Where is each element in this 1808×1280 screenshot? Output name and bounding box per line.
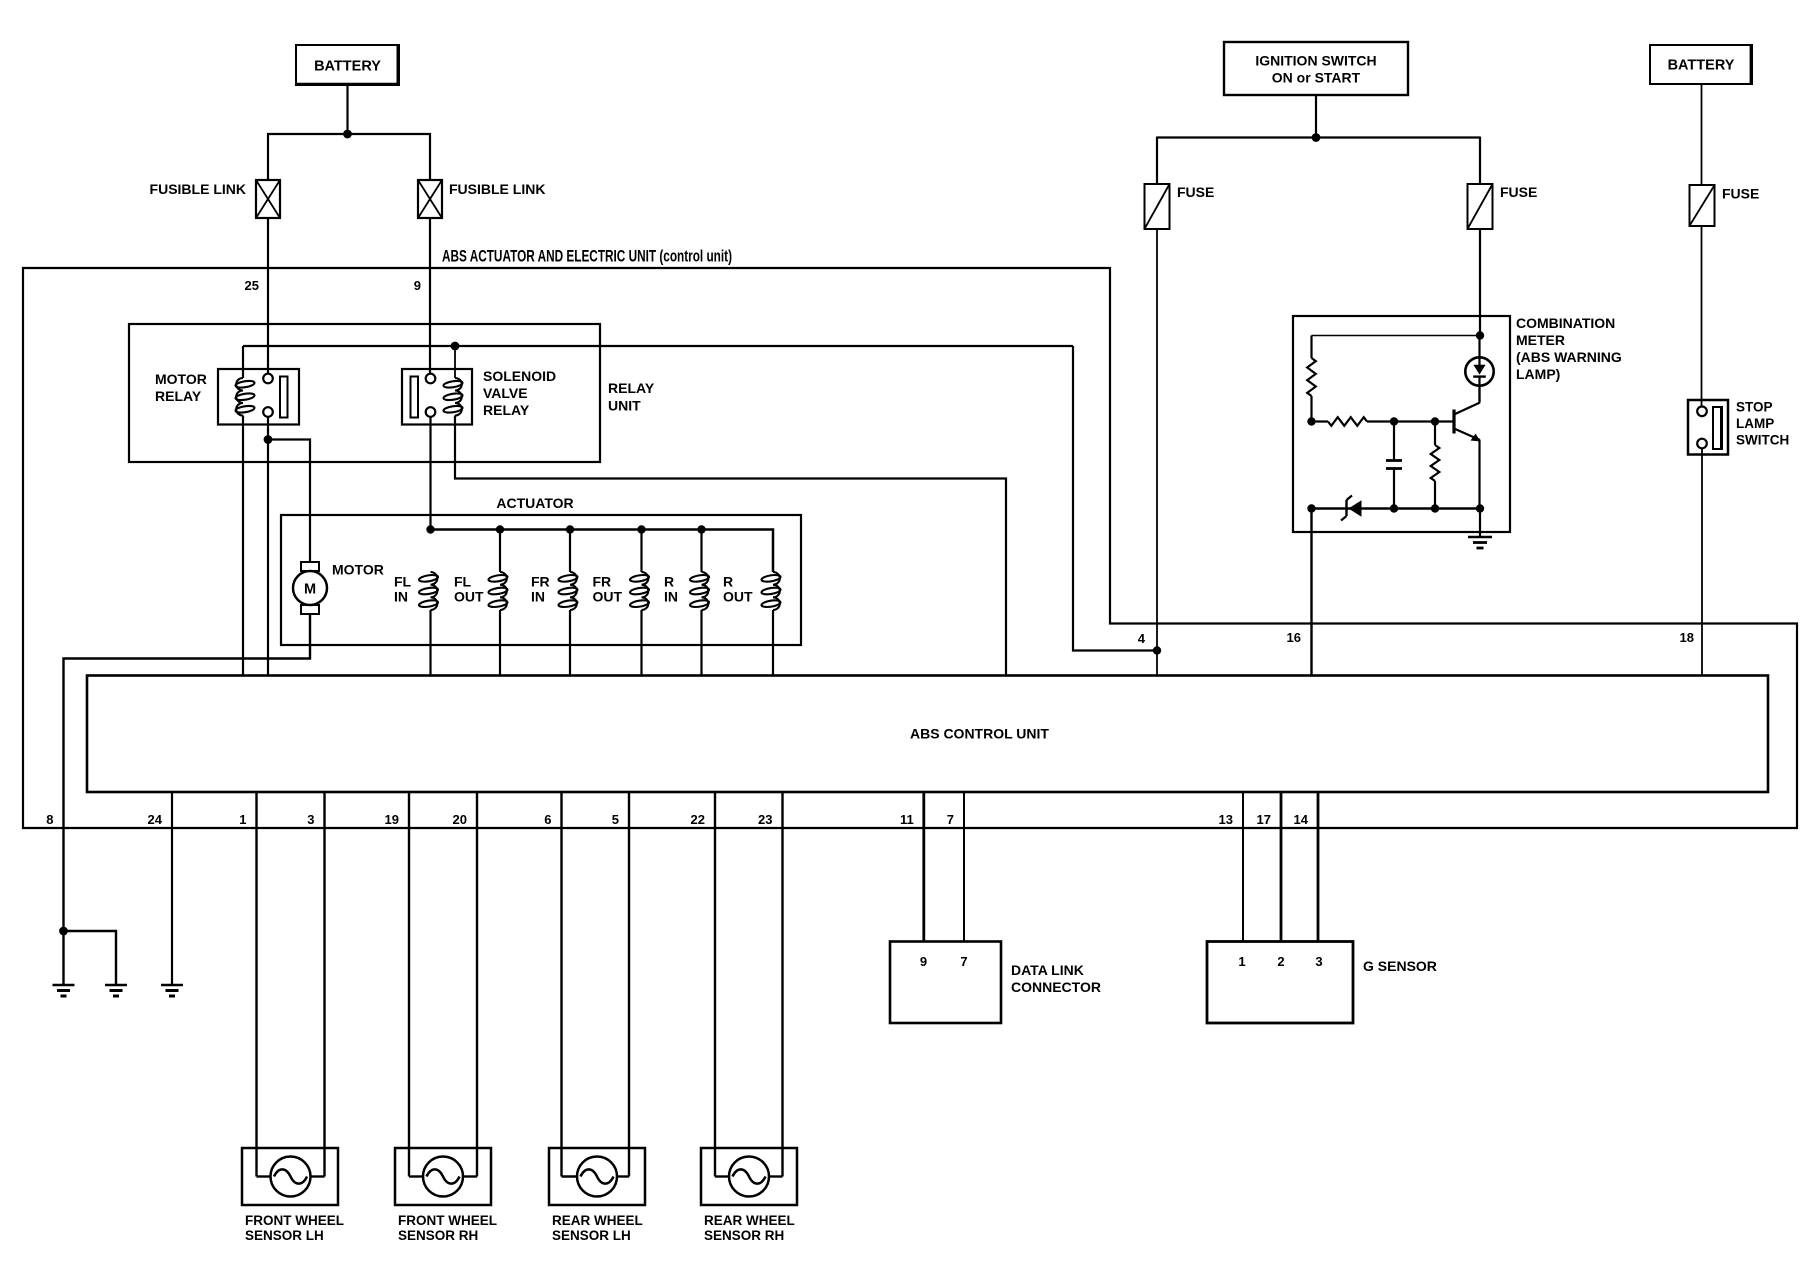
fusible link FL2 — [418, 180, 442, 218]
wire to fusible link FL2 — [429, 133, 431, 180]
node rail cap — [1390, 504, 1398, 512]
svg-text:ABS ACTUATOR AND ELECTRIC UNIT: ABS ACTUATOR AND ELECTRIC UNIT (control … — [442, 248, 732, 266]
actuator solenoid coil FR OUT — [642, 572, 649, 610]
ABS actuator and electric unit box — [23, 268, 1797, 828]
battery B1 box — [296, 45, 399, 85]
wire R3 top lead — [1434, 422, 1436, 446]
svg-text:FL: FL — [394, 574, 412, 590]
svg-text:9: 9 — [920, 954, 927, 969]
ground meter — [1468, 536, 1492, 538]
svg-text:MOTOR: MOTOR — [332, 562, 384, 578]
svg-text:SENSOR RH: SENSOR RH — [398, 1228, 478, 1243]
wire coil R OUT to control unit — [772, 610, 774, 676]
wire ignition split bar — [1157, 136, 1480, 138]
actuator solenoid coil R IN — [702, 572, 709, 610]
wire pin 17 to G sensor — [1280, 792, 1283, 942]
node bus FL IN — [426, 525, 434, 533]
node battery B1 split — [343, 130, 352, 139]
svg-text:19: 19 — [385, 812, 399, 827]
wire pin 11 to DLC — [922, 792, 925, 942]
wire into solenoid relay coil — [454, 346, 456, 378]
wire coil FR OUT to control unit — [640, 610, 642, 676]
svg-text:23: 23 — [758, 812, 772, 827]
svg-text:7: 7 — [947, 812, 954, 827]
svg-text:LAMP): LAMP) — [1516, 366, 1560, 382]
fuse F3 — [1690, 185, 1715, 226]
solenoid relay pin top — [426, 374, 436, 384]
node solenoid coil tap — [451, 342, 460, 351]
wire R3 bottom lead — [1434, 481, 1436, 509]
svg-text:LAMP: LAMP — [1736, 416, 1774, 431]
wire meter top rail — [1312, 335, 1481, 337]
actuator solenoid bus — [431, 530, 774, 573]
wire relay bus corner to pin4 jog — [1073, 346, 1158, 651]
svg-text:25: 25 — [245, 278, 259, 293]
wire pin 24 to ground — [171, 792, 173, 984]
svg-text:FUSIBLE LINK: FUSIBLE LINK — [449, 181, 545, 197]
svg-text:SENSOR LH: SENSOR LH — [552, 1228, 631, 1243]
svg-text:5: 5 — [612, 812, 619, 827]
stop lamp switch pin top — [1697, 407, 1707, 417]
svg-text:FRONT WHEEL: FRONT WHEEL — [398, 1213, 497, 1228]
svg-text:ABS CONTROL UNIT: ABS CONTROL UNIT — [910, 726, 1049, 742]
wire emitter down — [1478, 440, 1480, 509]
zener diode ZD1 — [1345, 500, 1347, 516]
resistor R1 — [1307, 358, 1316, 396]
motor relay pin top — [263, 374, 273, 384]
combination meter box — [1293, 316, 1510, 532]
node meter supply — [1476, 331, 1484, 339]
wire into motor relay coil — [242, 346, 244, 378]
motor M1 brush top — [301, 562, 319, 571]
wire fuse F1 to pin 4 — [1156, 229, 1158, 676]
node ignition split — [1312, 133, 1321, 142]
svg-text:16: 16 — [1287, 630, 1301, 645]
wire motor relay pin down — [267, 417, 269, 440]
svg-text:1: 1 — [239, 812, 246, 827]
wire ground main — [62, 931, 64, 984]
stop lamp switch bar — [1713, 407, 1722, 449]
svg-text:IGNITION SWITCH: IGNITION SWITCH — [1255, 53, 1376, 69]
wire meter left drop — [1310, 336, 1312, 359]
solenoid relay pin bottom — [426, 407, 436, 417]
ground G2 — [105, 984, 127, 986]
LED D1 lamp — [1465, 357, 1493, 385]
svg-text:RELAY: RELAY — [483, 402, 530, 418]
svg-text:RELAY: RELAY — [155, 388, 202, 404]
wire collector to LED — [1478, 385, 1480, 403]
svg-text:14: 14 — [1294, 812, 1309, 827]
motor relay contact bar — [280, 377, 288, 418]
svg-text:8: 8 — [46, 812, 53, 827]
svg-text:SENSOR LH: SENSOR LH — [245, 1228, 324, 1243]
svg-text:VALVE: VALVE — [483, 385, 528, 401]
wire meter to pin 16 — [1310, 509, 1312, 676]
wire to fuse F2 — [1479, 137, 1481, 185]
svg-text:11: 11 — [900, 812, 914, 827]
svg-text:18: 18 — [1680, 630, 1694, 645]
svg-text:OUT: OUT — [454, 589, 484, 605]
node rail left — [1307, 504, 1315, 512]
svg-text:FUSE: FUSE — [1177, 184, 1214, 200]
node base rail cap — [1390, 417, 1398, 425]
wire solenoid coil to node — [455, 416, 1006, 676]
G sensor box — [1207, 942, 1353, 1024]
ground G3 — [161, 984, 183, 986]
fusible link FL1 — [256, 180, 280, 218]
wire coil R IN to control unit — [700, 610, 702, 676]
wire ignition stem — [1315, 95, 1317, 138]
svg-text:ACTUATOR: ACTUATOR — [496, 495, 573, 511]
node ground split — [59, 927, 68, 936]
wire fuse F3 to stop lamp switch — [1701, 226, 1703, 406]
wire bus drop R IN — [700, 530, 702, 573]
meter bottom rail — [1312, 507, 1481, 509]
svg-text:REAR WHEEL: REAR WHEEL — [552, 1213, 643, 1228]
motor relay coil — [236, 378, 243, 416]
wire cap bottom lead — [1393, 469, 1395, 509]
wire motor to ground pin 8 — [64, 614, 311, 931]
node bus FL OUT — [496, 525, 504, 533]
svg-text:SWITCH: SWITCH — [1736, 433, 1789, 448]
wire meter ground drop — [1479, 509, 1481, 537]
rear wheel sensor RH — [701, 1148, 797, 1205]
stop lamp switch pin bottom — [1697, 439, 1707, 449]
actuator box — [281, 515, 801, 645]
node bus FR OUT — [637, 525, 645, 533]
svg-text:24: 24 — [148, 812, 163, 827]
node pin 4 junction — [1153, 646, 1161, 654]
wire pin 7 to DLC — [963, 792, 965, 942]
wire motor relay coil to control unit — [242, 416, 244, 676]
motor M1 body — [293, 571, 327, 605]
solenoid relay contact bar — [411, 377, 419, 418]
wire base rail — [1367, 420, 1453, 422]
wire solenoid relay pin to actuator bus — [429, 417, 431, 530]
svg-text:20: 20 — [453, 812, 467, 827]
wire coil FL IN to control unit — [429, 610, 431, 676]
relay K1 motor relay box — [218, 369, 299, 425]
wire pin 13 to G sensor — [1242, 792, 1244, 942]
fuse F1 — [1145, 184, 1170, 229]
wire stop lamp to pin 18 — [1701, 449, 1703, 676]
node rail emitter — [1476, 504, 1484, 512]
node bus FR IN — [566, 525, 574, 533]
wire battery B1 stem — [346, 85, 348, 134]
svg-text:7: 7 — [960, 954, 967, 969]
relay K2 solenoid valve relay box — [402, 369, 472, 425]
node rail R3 — [1431, 504, 1439, 512]
svg-text:FUSE: FUSE — [1722, 186, 1759, 202]
svg-text:3: 3 — [1315, 954, 1322, 969]
svg-text:DATA LINK: DATA LINK — [1011, 962, 1084, 978]
svg-text:FR: FR — [593, 574, 612, 590]
svg-text:9: 9 — [414, 278, 421, 293]
relay unit box — [129, 324, 600, 462]
svg-text:COMBINATION: COMBINATION — [1516, 315, 1615, 331]
data link connector box — [890, 942, 1001, 1024]
ground G1 — [53, 984, 75, 986]
svg-text:3: 3 — [307, 812, 314, 827]
wire battery B1 split bar — [267, 133, 431, 135]
fuse F2 — [1468, 184, 1493, 229]
wire pin 14 to G sensor — [1317, 792, 1320, 942]
svg-text:6: 6 — [544, 812, 551, 827]
svg-text:METER: METER — [1516, 332, 1565, 348]
wire bus drop FR OUT — [640, 530, 642, 573]
node base rail R3 — [1431, 417, 1439, 425]
svg-text:G SENSOR: G SENSOR — [1363, 958, 1437, 974]
svg-text:SOLENOID: SOLENOID — [483, 368, 556, 384]
svg-text:IN: IN — [531, 589, 545, 605]
wire ground branch — [64, 931, 117, 984]
svg-text:R: R — [723, 574, 733, 590]
svg-text:FUSE: FUSE — [1500, 184, 1537, 200]
svg-text:2: 2 — [1277, 954, 1284, 969]
svg-text:IN: IN — [664, 589, 678, 605]
wire R1 to base node — [1310, 396, 1312, 422]
transistor Q1 collector — [1454, 403, 1480, 415]
svg-text:MOTOR: MOTOR — [155, 371, 207, 387]
wire relay coil bus y346 — [243, 345, 1073, 347]
svg-text:OUT: OUT — [723, 589, 753, 605]
wire to fusible link FL1 — [267, 133, 269, 180]
svg-text:17: 17 — [1257, 812, 1271, 827]
svg-text:22: 22 — [691, 812, 705, 827]
svg-text:FRONT WHEEL: FRONT WHEEL — [245, 1213, 344, 1228]
node motor relay junction — [264, 435, 273, 444]
ignition switch box — [1224, 42, 1408, 95]
wire coil FL OUT to control unit — [499, 610, 501, 676]
svg-text:(ABS WARNING: (ABS WARNING — [1516, 349, 1622, 365]
wire coil FR IN to control unit — [569, 610, 571, 676]
svg-text:FUSIBLE LINK: FUSIBLE LINK — [150, 181, 246, 197]
svg-text:OUT: OUT — [593, 589, 623, 605]
svg-text:FR: FR — [531, 574, 550, 590]
stop lamp switch box — [1688, 400, 1728, 455]
resistor R3 — [1431, 445, 1440, 481]
svg-text:CONNECTOR: CONNECTOR — [1011, 979, 1101, 995]
svg-text:ON or START: ON or START — [1272, 70, 1361, 86]
svg-text:4: 4 — [1138, 631, 1146, 646]
front wheel sensor RH — [395, 1148, 491, 1205]
node base rail left — [1307, 417, 1315, 425]
actuator solenoid coil R OUT — [773, 572, 780, 610]
node bus R IN — [697, 525, 705, 533]
battery B2 box — [1650, 45, 1752, 84]
wire cap top lead — [1393, 422, 1395, 461]
svg-text:R: R — [664, 574, 674, 590]
svg-text:IN: IN — [394, 589, 408, 605]
wire motor relay junction to motor — [268, 440, 310, 564]
actuator solenoid coil FR IN — [570, 572, 577, 610]
motor M1 brush bottom — [301, 605, 319, 614]
resistor R2 base — [1312, 420, 1329, 422]
svg-text:FL: FL — [454, 574, 472, 590]
front wheel sensor LH — [242, 1148, 338, 1205]
wire to fuse F1 — [1156, 137, 1158, 185]
wire battery B2 stem — [1701, 84, 1703, 185]
motor relay pin bottom — [263, 407, 273, 417]
solenoid relay coil — [455, 378, 462, 416]
rear wheel sensor LH — [549, 1148, 645, 1205]
wire FL1 to motor relay pin — [267, 218, 269, 374]
svg-text:M: M — [304, 582, 316, 598]
svg-text:1: 1 — [1238, 954, 1245, 969]
svg-text:UNIT: UNIT — [608, 398, 641, 414]
wire fuse F2 to combination meter — [1479, 229, 1481, 336]
svg-text:13: 13 — [1219, 812, 1233, 827]
svg-text:RELAY: RELAY — [608, 380, 655, 396]
wire FL2 to solenoid relay pin — [429, 218, 431, 374]
wire bus drop FL OUT — [499, 530, 501, 573]
svg-text:BATTERY: BATTERY — [314, 59, 381, 75]
capacitor C1 — [1386, 459, 1402, 462]
actuator solenoid coil FL IN — [431, 572, 438, 610]
svg-text:REAR WHEEL: REAR WHEEL — [704, 1213, 795, 1228]
ABS control unit box — [87, 676, 1768, 793]
transistor Q1 base bar — [1452, 410, 1455, 434]
wire motor relay junction to control unit — [267, 440, 269, 676]
svg-text:BATTERY: BATTERY — [1668, 58, 1735, 74]
transistor Q1 emitter — [1454, 429, 1480, 441]
svg-text:SENSOR RH: SENSOR RH — [704, 1228, 784, 1243]
wire bus drop FR IN — [569, 530, 571, 573]
svg-text:STOP: STOP — [1736, 400, 1773, 415]
actuator solenoid coil FL OUT — [500, 572, 507, 610]
